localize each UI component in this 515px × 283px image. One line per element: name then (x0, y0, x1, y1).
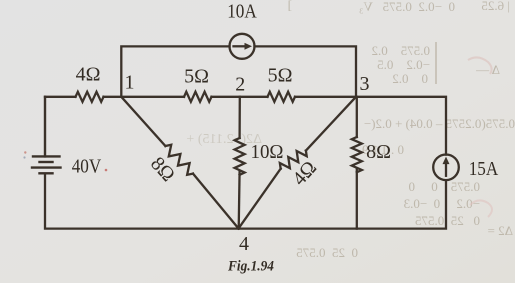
svg-text:10Ω: 10Ω (251, 141, 284, 163)
svg-text:8Ω: 8Ω (366, 141, 391, 163)
svg-text:5Ω: 5Ω (268, 65, 293, 87)
svg-text:0.575(0.2575 – 0.04) + 0.2(−: 0.575(0.2575 – 0.04) + 0.2(− (364, 116, 515, 131)
resistor 5Ω (horizontal, node1-node2) (184, 92, 211, 102)
svg-text:0 0.2: 0 0.2 (392, 71, 428, 86)
wire main rail node3 and right extension (295, 97, 446, 155)
svg-text:0 25 0.575: 0 25 0.575 (296, 245, 358, 260)
svg-text:4Ω: 4Ω (76, 64, 101, 86)
current source 15A (433, 155, 459, 181)
svg-text:Δ —: Δ — (475, 62, 500, 77)
svg-text:Fig.1.94: Fig.1.94 (227, 259, 274, 275)
svg-text:2: 2 (235, 74, 245, 96)
svg-text:Δ2 =: Δ2 = (488, 223, 513, 238)
svg-text:1: 1 (125, 72, 135, 94)
svg-text:0 25 0.575: 0 25 0.575 (415, 213, 480, 228)
wire right branch bottom (45, 175, 446, 228)
svg-text:]: ] (288, 0, 292, 12)
wire top rail left (node1 up and across to 10A source) (121, 46, 229, 96)
svg-text:0.575 0.2: 0.575 0.2 (372, 43, 431, 58)
svg-text:15A: 15A (469, 158, 499, 180)
svg-text:−0.2 0.5: −0.2 0.5 (377, 57, 430, 72)
wire main rail left segment (45, 96, 76, 98)
svg-text:40V: 40V (72, 156, 102, 178)
svg-text:10A: 10A (227, 1, 257, 23)
resistor 4Ω (horizontal, left) (76, 92, 104, 102)
resistor 8Ω (diagonal, node1 to node4) (121, 97, 238, 229)
svg-text:0.575 0 0: 0.575 0 0 (409, 179, 481, 194)
wire top rail right (10A source to node3 drop) (255, 46, 357, 96)
voltage source 40V (battery) (32, 97, 61, 174)
wire main rail to node2 (212, 96, 268, 98)
svg-text:3: 3 (360, 73, 370, 95)
svg-text:5Ω: 5Ω (184, 66, 209, 88)
resistor 5Ω (horizontal, node2-node3) (268, 92, 295, 102)
svg-text:0 −0.2 0.575 V₃: 0 −0.2 0.575 V₃ (359, 0, 455, 14)
resistor 8Ω (vertical, node3 to bottom rail) (352, 97, 362, 229)
svg-text:−0.2 0 −0.3: −0.2 0 −0.3 (404, 196, 480, 211)
current source 10A (230, 34, 255, 59)
svg-text:4: 4 (239, 233, 249, 255)
svg-text:| 6.25: | 6.25 (481, 0, 510, 13)
resistor 4Ω (diagonal, node3 to node4) (239, 97, 357, 229)
resistor 10Ω (vertical, node2 to node4) (235, 97, 245, 229)
wire main rail node1-node2 segment with 5Ω (104, 96, 185, 98)
